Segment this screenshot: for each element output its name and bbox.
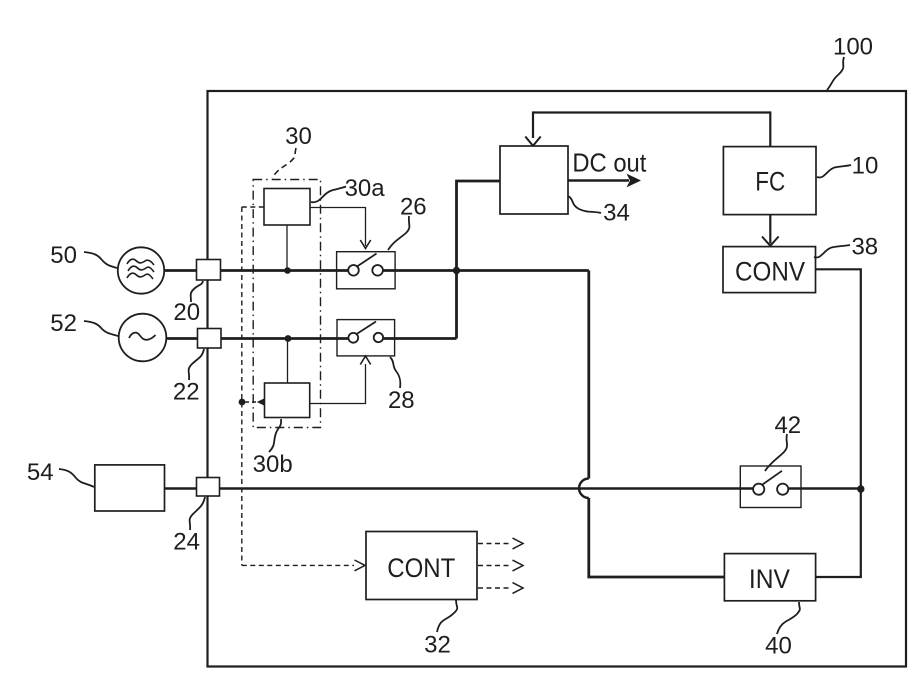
leader for 30a [311, 187, 346, 203]
leader for 32 [437, 600, 457, 632]
svg-text:100: 100 [833, 34, 873, 61]
svg-text:CONT: CONT [387, 553, 455, 583]
CONT output dashed arrow 1 [478, 543, 512, 545]
box 30a [264, 189, 310, 226]
switch 28 contact left [348, 333, 358, 343]
leader for 54 [59, 469, 94, 487]
svg-text:10: 10 [852, 153, 879, 180]
wire FC to CONV [769, 215, 771, 244]
arrowhead into CONT [355, 560, 366, 571]
svg-text:52: 52 [50, 310, 77, 337]
wire [383, 269, 589, 272]
wire [589, 498, 724, 577]
box 54 [95, 465, 165, 511]
leader for 52 [84, 321, 118, 336]
leader for 30 (dashed) [272, 148, 296, 178]
box 30b [265, 383, 310, 418]
svg-text:30b: 30b [253, 451, 293, 478]
box 34 [500, 146, 568, 214]
wire [788, 487, 861, 489]
svg-text:38: 38 [851, 234, 878, 261]
arrowhead pointing left at 30b link [257, 398, 265, 406]
junction node at switch 42 output [857, 485, 864, 492]
leader for 20 [191, 281, 203, 302]
leader for 42 [765, 434, 787, 471]
wire vertical DC bus to INV [587, 271, 590, 479]
dashed control line into CONT [242, 564, 354, 566]
svg-text:26: 26 [400, 193, 427, 220]
svg-text:28: 28 [388, 387, 415, 414]
svg-text:24: 24 [173, 528, 200, 555]
leader for 30b [269, 419, 281, 452]
node on control bus at 30b [239, 399, 246, 406]
svg-text:30: 30 [285, 123, 312, 150]
sense line 30b to bus2 [287, 341, 289, 383]
leader for 100 [827, 57, 844, 90]
switch 28 lever [357, 322, 376, 335]
switch 26 lever [357, 254, 377, 267]
wire 3 from box 54 across to node [165, 487, 754, 489]
source 50 waves [127, 259, 154, 265]
svg-text:30a: 30a [345, 175, 386, 202]
svg-text:INV: INV [749, 564, 790, 594]
wire bus 1 from source 50 [164, 269, 348, 272]
DC out arrow [568, 179, 629, 181]
switch 42 box [740, 466, 801, 508]
block CONT 32 [366, 532, 477, 600]
switch 42 contact right [777, 484, 788, 495]
svg-text:40: 40 [765, 632, 792, 659]
switch 26 box [337, 252, 396, 289]
svg-text:CONV: CONV [735, 256, 805, 286]
switch 28 contact right [374, 333, 383, 342]
wire feedback FC top to box 34 [533, 113, 770, 147]
connector 22 [198, 329, 222, 349]
svg-text:34: 34 [603, 200, 630, 227]
CONT output dashed arrow 2 [478, 565, 512, 567]
svg-text:42: 42 [774, 412, 801, 439]
connector 24 [197, 478, 220, 497]
junction node on bus2 at 30b tap [285, 335, 292, 342]
op block FC U10 [723, 147, 816, 215]
junction node bus1/box34 wire [453, 267, 460, 274]
leader for 40 [777, 602, 800, 634]
leader for 10 [817, 165, 851, 177]
wire bus 2 from source 52 [166, 337, 348, 340]
arrowhead into box 34 top [525, 137, 540, 146]
leader for 34 [568, 196, 601, 213]
block CONV 38 [723, 247, 816, 293]
leader for 28 [390, 357, 400, 388]
wire [383, 337, 456, 340]
dashed control bus vertical from group 30 to CONT [241, 207, 243, 565]
svg-text:DC out: DC out [572, 148, 647, 178]
wire box 34 to DC node [457, 181, 501, 339]
wire CONV right down to INV right [816, 269, 861, 577]
leader for 26 [388, 216, 409, 250]
source 50 circle [118, 247, 164, 293]
svg-text:32: 32 [424, 632, 451, 659]
arrowhead into switch 26 top [360, 240, 370, 249]
junction node on bus1 at 30a tap [284, 267, 291, 274]
connector 20 [197, 260, 221, 281]
switch 26 contact left [348, 265, 359, 276]
control line 30a to switch 26 [310, 208, 366, 247]
dashed link to 30a [242, 206, 264, 208]
leader for 50 [84, 252, 117, 268]
control line 30b to switch 28 [310, 364, 366, 404]
arrowhead into CONV top [762, 237, 779, 246]
dashed link to 30b [245, 401, 256, 403]
sense line 30a to bus1 [286, 225, 288, 268]
leader for 22 [189, 349, 204, 380]
svg-text:20: 20 [173, 299, 200, 326]
svg-text:50: 50 [50, 242, 77, 269]
switch 26 contact right [372, 265, 383, 276]
arrowhead into switch 28 bottom [360, 356, 370, 365]
svg-text:22: 22 [173, 379, 200, 406]
svg-text:54: 54 [27, 459, 54, 486]
leader for 38 [814, 245, 850, 257]
leader for 24 [190, 497, 205, 530]
block INV 40 [724, 554, 815, 601]
source 52 circle [119, 314, 167, 362]
border box 100 [208, 91, 907, 667]
wire hop over line 24 [579, 479, 589, 499]
switch 42 lever [763, 471, 783, 485]
switch 28 box [337, 320, 395, 356]
source 52 sine [129, 333, 156, 340]
svg-text:FC: FC [755, 167, 785, 197]
group 30 dash-dot box [253, 180, 320, 428]
CONT output dashed arrow 3 [478, 587, 512, 589]
switch 42 contact left [753, 484, 764, 495]
